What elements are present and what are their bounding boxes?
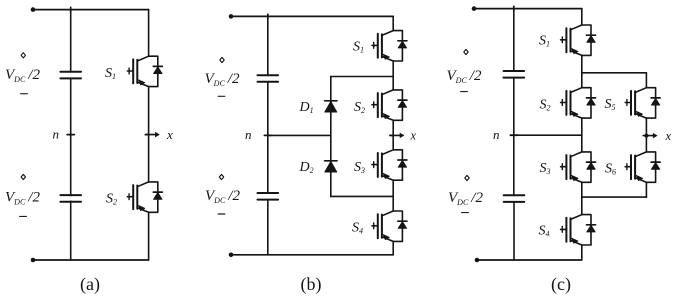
node n tick (c) bbox=[510, 134, 517, 136]
wire: right leg from top rail to S1 (a) bbox=[148, 10, 150, 56]
capacitor C1 (b) bbox=[258, 75, 279, 82]
capacitor C1 (c) bbox=[504, 71, 525, 78]
svg-text:D1: D1 bbox=[299, 100, 314, 115]
svg-text:S3: S3 bbox=[540, 161, 551, 176]
svg-text:D2: D2 bbox=[299, 160, 314, 175]
svg-text:VDC /2: VDC /2 bbox=[447, 68, 482, 85]
svg-text:S4: S4 bbox=[539, 224, 550, 239]
wire: neutral line n to main leg (c) bbox=[514, 134, 582, 136]
transistor S2 (a) IGBT with antiparallel diode bbox=[127, 182, 162, 212]
wire: neutral line n to clamp branch (b) bbox=[268, 134, 331, 136]
minus mark upper source (b) bbox=[218, 95, 225, 97]
node n tick (a) bbox=[67, 134, 74, 136]
capacitor C2 (a) bbox=[60, 195, 81, 202]
svg-text:VDC /2: VDC /2 bbox=[205, 71, 240, 88]
capacitor C1 (a) bbox=[60, 72, 81, 79]
svg-text:VDC /2: VDC /2 bbox=[448, 190, 483, 207]
node x tick (b) bbox=[390, 134, 393, 136]
transistor S2 (c) bbox=[561, 88, 596, 118]
diode D2 (b) bbox=[325, 161, 337, 172]
wire: right leg S1 to S2 through node x (a) bbox=[148, 87, 150, 181]
top-left terminal dot (a) bbox=[31, 7, 36, 12]
minus mark lower source (c) bbox=[462, 212, 469, 214]
wire: S1 to S2 on main leg (c) bbox=[581, 56, 583, 87]
wire: bottom rail (a) bbox=[33, 259, 149, 261]
svg-text:S3: S3 bbox=[354, 160, 365, 175]
wire: left leg lower segment (b) bbox=[267, 200, 269, 255]
minus mark upper source (a) bbox=[21, 93, 28, 95]
node n tick (b) bbox=[264, 134, 271, 136]
plus mark upper source (b) bbox=[220, 57, 224, 62]
wire: right leg top rail to S1 (b) bbox=[392, 16, 394, 29]
svg-text:(a): (a) bbox=[80, 274, 100, 295]
bottom-left terminal dot (a) bbox=[31, 258, 36, 263]
wire: top rail (c) bbox=[474, 8, 582, 10]
minus mark upper source (c) bbox=[461, 91, 468, 93]
capacitor C2 (c) bbox=[504, 195, 525, 202]
wire: main leg top rail to S1 (c) bbox=[581, 9, 583, 25]
transistor S3 (c) bbox=[561, 152, 596, 182]
wire: clamp diode branch vertical (b) bbox=[330, 77, 332, 197]
transistor S1 (b) bbox=[372, 31, 407, 61]
plus mark lower source (b) bbox=[219, 174, 223, 179]
wire: S2 to S3 through node x (b) bbox=[392, 121, 394, 149]
transistor S1 (a) IGBT with antiparallel diode bbox=[127, 56, 162, 86]
svg-text:n: n bbox=[245, 127, 252, 142]
output arrow x (c) bbox=[643, 133, 657, 138]
bottom-left terminal dot (b) bbox=[229, 253, 234, 258]
top-left terminal dot (b) bbox=[229, 14, 234, 19]
minus mark lower source (b) bbox=[218, 213, 225, 215]
wire: S3 to S4 on main leg (c) bbox=[581, 183, 583, 214]
svg-text:x: x bbox=[665, 129, 672, 143]
wire: left leg middle segment (b) bbox=[267, 82, 269, 193]
svg-text:S2: S2 bbox=[106, 192, 117, 207]
svg-text:S1: S1 bbox=[105, 66, 116, 81]
wire: bottom rail (b) bbox=[231, 254, 393, 256]
plus mark upper source (c) bbox=[464, 49, 468, 54]
svg-text:n: n bbox=[493, 127, 500, 142]
transistor S4 (b) bbox=[372, 211, 407, 241]
plus mark lower source (a) bbox=[21, 174, 25, 179]
wire: left leg upper segment (b) bbox=[267, 16, 269, 75]
svg-text:x: x bbox=[166, 127, 173, 142]
wire: S1 to S2 (b) bbox=[392, 62, 394, 89]
plus mark lower source (c) bbox=[465, 175, 469, 180]
transistor S2 (b) bbox=[372, 90, 407, 120]
node: junction capacitor leg with top rail (c) bbox=[513, 6, 515, 11]
wire: S4 to bottom rail (b) bbox=[392, 242, 394, 255]
diode D1 (b) bbox=[325, 101, 337, 112]
transistor S3 (b) bbox=[372, 150, 407, 180]
wire: left leg between capacitors upper (a) bbox=[70, 78, 72, 195]
wire: S3 to S4 (b) bbox=[392, 181, 394, 210]
svg-text:x: x bbox=[410, 128, 417, 142]
svg-text:n: n bbox=[53, 127, 60, 142]
transistor S6 (c) bbox=[625, 152, 660, 182]
wire: S5 to S6 through node x (c) bbox=[645, 119, 647, 151]
svg-text:S4: S4 bbox=[352, 221, 363, 236]
wire: S3-S4 junction to right leg (c) bbox=[582, 196, 647, 198]
plus mark upper source (a) bbox=[21, 53, 25, 58]
svg-text:S1: S1 bbox=[353, 40, 364, 55]
svg-text:VDC /2: VDC /2 bbox=[5, 190, 40, 207]
wire: right leg S2 to bottom rail (a) bbox=[148, 213, 150, 260]
svg-text:(b): (b) bbox=[301, 274, 322, 295]
wire: clamp branch bottom jog to S3-S4 junction (b) bbox=[331, 195, 393, 197]
transistor S4 (c) bbox=[561, 215, 596, 245]
svg-text:VDC /2: VDC /2 bbox=[5, 67, 40, 84]
node x tick (a) bbox=[145, 134, 148, 136]
wire: top rail (b) bbox=[231, 15, 393, 17]
capacitor C2 (b) bbox=[258, 193, 279, 200]
wire: S4 to bottom rail (c) bbox=[581, 246, 583, 260]
wire: bottom rail (c) bbox=[477, 259, 582, 261]
node: junction of capacitor leg with top rail (a) bbox=[70, 7, 72, 12]
node x dot (c) bbox=[644, 134, 648, 138]
transistor S1 (c) bbox=[561, 25, 596, 55]
svg-text:S1: S1 bbox=[539, 34, 550, 49]
wire: left leg upper segment (c) bbox=[513, 9, 515, 71]
wire: clamp branch top jog to S1-S2 junction (b) bbox=[331, 76, 393, 78]
output arrow x (a) bbox=[145, 132, 159, 137]
svg-text:S2: S2 bbox=[540, 98, 551, 113]
wire: left leg lower segment (c) bbox=[513, 202, 515, 260]
wire: S1-S2 junction to right leg (c) bbox=[582, 72, 647, 74]
node: junction capacitor leg with top rail (b) bbox=[267, 14, 269, 19]
wire: top rail (a) bbox=[33, 9, 149, 11]
svg-text:S6: S6 bbox=[605, 162, 616, 177]
wire: S6 down to junction2 (c) bbox=[645, 183, 647, 197]
bottom-left terminal dot (c) bbox=[475, 258, 480, 263]
wire: S2 to S3 through n junction (c) bbox=[581, 119, 583, 151]
top-left terminal dot (c) bbox=[472, 6, 477, 11]
svg-text:(c): (c) bbox=[551, 274, 571, 295]
wire: right leg junction1 down to S5 (c) bbox=[645, 73, 647, 87]
wire: left leg lower segment (a) bbox=[70, 201, 72, 260]
svg-text:S5: S5 bbox=[605, 97, 616, 112]
transistor S5 (c) bbox=[625, 88, 660, 118]
wire: left capacitor leg upper segment (a) bbox=[70, 10, 72, 72]
minus mark lower source (a) bbox=[20, 215, 27, 217]
wire: left leg middle segment (c) bbox=[513, 78, 515, 196]
svg-text:VDC /2: VDC /2 bbox=[205, 188, 240, 205]
output arrow x (b) bbox=[390, 133, 404, 138]
svg-text:S2: S2 bbox=[354, 100, 365, 115]
